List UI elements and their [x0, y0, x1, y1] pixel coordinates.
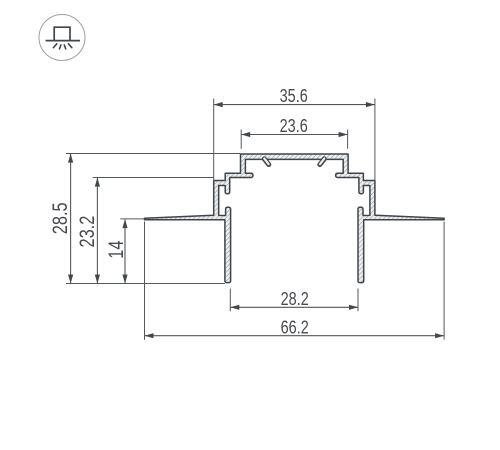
- svg-text:35.6: 35.6: [280, 85, 308, 106]
- tooth (left cover detent) outline: [264, 159, 269, 165]
- dim 35.6 extension line right: [374, 99, 376, 181]
- icon: recessed mount symbol circle: [39, 15, 85, 61]
- dim 66.2 extension line right: [443, 222, 445, 340]
- tooth (left) light core: [264, 159, 268, 165]
- dim 23.2 line: [96, 178, 98, 283]
- svg-text:23.2: 23.2: [75, 216, 98, 248]
- icon: light ray 4: [68, 44, 71, 48]
- tooth (right) light core: [320, 159, 324, 165]
- dim 23.6 extension line left: [240, 130, 242, 149]
- dim 23.2 arrow bottom: [95, 275, 100, 284]
- dim 14 extension line top: [120, 218, 144, 220]
- dim 35.6 arrow left: [214, 102, 223, 107]
- svg-text:23.6: 23.6: [280, 115, 308, 136]
- profile body (hatched aluminium cross-section): [145, 154, 445, 283]
- dim 23.6 arrow right: [339, 132, 348, 137]
- icon: fixture box: [54, 27, 70, 40]
- svg-text:28.2: 28.2: [281, 288, 309, 309]
- dim 23.6 line: [242, 134, 348, 136]
- dim 28.2 arrow right: [349, 305, 358, 310]
- dim 14 arrow top: [122, 219, 127, 228]
- svg-text:66.2: 66.2: [281, 317, 309, 338]
- dim 28.2 extension line left: [229, 289, 231, 312]
- svg-text:28.5: 28.5: [48, 202, 71, 234]
- dim 66.2 arrow right: [435, 333, 444, 338]
- dim 35.6 arrow right: [366, 102, 375, 107]
- dim 35.6 extension line left: [213, 99, 215, 181]
- icon: light ray 3: [64, 45, 65, 49]
- dim 66.2 extension line left: [144, 222, 146, 340]
- dim 66.2 line: [145, 335, 444, 337]
- tooth (right cover detent) outline: [320, 159, 325, 165]
- dim 28.2 extension line right: [357, 289, 359, 312]
- dim 28.5 arrow bottom: [68, 275, 73, 284]
- dim 28.5 line: [70, 154, 72, 283]
- icon: mounting surface line: [46, 40, 80, 42]
- dim 66.2 arrow left: [145, 333, 154, 338]
- dims bottom shared extension line: [66, 283, 225, 285]
- dim 14 line: [124, 219, 126, 283]
- icon: light ray 2: [60, 45, 61, 49]
- dim 35.6 line: [214, 104, 375, 106]
- dim 28.5 arrow top: [68, 154, 73, 163]
- dim 23.6 arrow left: [241, 132, 250, 137]
- svg-text:14: 14: [104, 240, 127, 258]
- dim 28.5 extension line top: [66, 153, 240, 155]
- dim 28.2 arrow left: [230, 305, 239, 310]
- dim 23.2 extension line top: [93, 177, 214, 179]
- dim 23.6 extension line right: [347, 130, 349, 149]
- dim 14 arrow bottom: [122, 275, 127, 284]
- icon: light ray 1: [53, 44, 56, 48]
- dim 28.2 line: [231, 306, 358, 308]
- dim 23.2 arrow top: [95, 178, 100, 187]
